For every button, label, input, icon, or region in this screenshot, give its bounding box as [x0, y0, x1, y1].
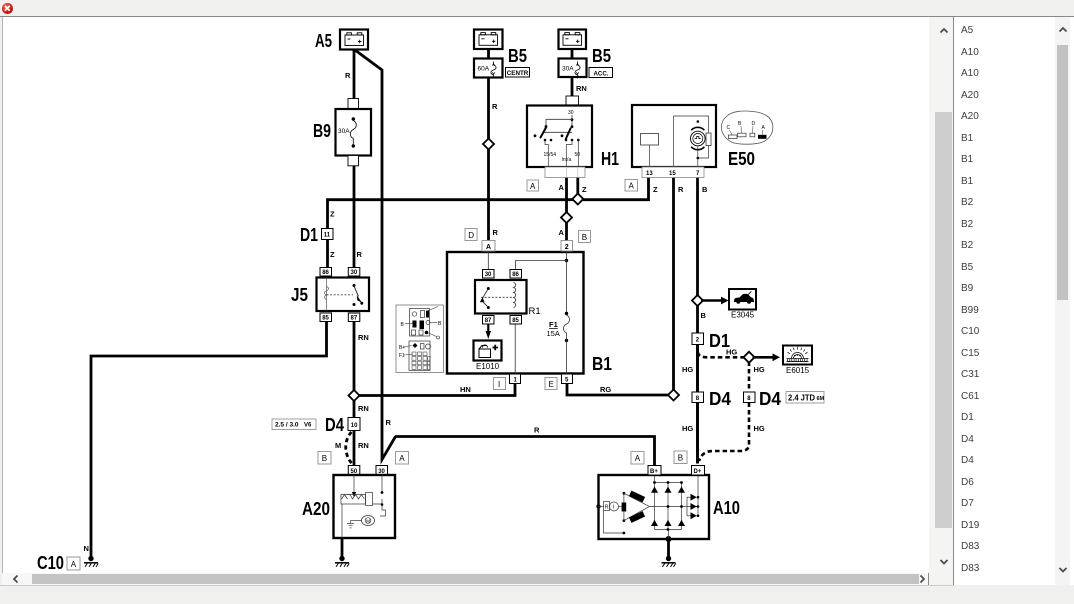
svg-text:A10: A10 — [713, 498, 740, 518]
svg-text:V6: V6 — [304, 423, 312, 429]
close button — [2, 3, 13, 14]
junction diamond on bus — [572, 193, 583, 204]
svg-text:2.5 / 3.0: 2.5 / 3.0 — [275, 422, 299, 429]
arrow to E6015 — [753, 353, 781, 361]
wire A20 bottom to ground — [341, 538, 344, 558]
variant box 2.4 JTD 6M — [786, 392, 825, 404]
svg-text:HG: HG — [754, 365, 765, 374]
svg-text:A: A — [486, 244, 491, 251]
wire D1-2 dashed to HG splice — [698, 345, 746, 358]
svg-text:60A: 60A — [478, 66, 490, 73]
svg-text:E: E — [549, 380, 554, 389]
connector face oval E50 — [721, 111, 773, 144]
connector letter box A (E50) — [625, 180, 638, 192]
connector D4 pin 10 — [348, 418, 360, 431]
svg-text:86: 86 — [512, 272, 519, 278]
svg-text:Z: Z — [330, 250, 335, 259]
wire HG down left solid D1-2 to D4-8 — [696, 345, 699, 393]
connector letter box D — [465, 229, 477, 241]
wire E50 pin 15 down to RG splice (R) — [672, 178, 675, 395]
pin box A10 D+ — [692, 466, 705, 476]
wire HG left D4-8 to A10 D+ — [696, 403, 699, 464]
svg-text:I: I — [613, 505, 614, 511]
wire B5 CENTR fuse down to B1 pin A (R) — [487, 78, 490, 244]
svg-text:A: A — [635, 454, 641, 463]
connector letter box A (A10) — [631, 452, 644, 465]
connector D4 pin 8 (left) — [692, 392, 704, 403]
svg-text:A: A — [399, 454, 405, 463]
battery B5 CENTR — [474, 30, 503, 50]
svg-text:15A: 15A — [547, 329, 560, 338]
svg-text:A: A — [530, 182, 536, 191]
svg-text:D1: D1 — [709, 331, 730, 351]
svg-text:13: 13 — [646, 171, 653, 177]
svg-text:R: R — [534, 426, 540, 435]
svg-text:B1: B1 — [592, 354, 612, 374]
svg-text:Z: Z — [653, 185, 658, 194]
svg-text:Z: Z — [582, 185, 587, 194]
svg-text:B9: B9 — [313, 121, 331, 141]
pin box A20 50 — [348, 466, 360, 476]
svg-text:50: 50 — [575, 152, 581, 158]
svg-text:F1: F1 — [549, 320, 558, 329]
wire HG dashed D4-8 right down to A10 D+ — [699, 403, 749, 462]
fuse/relay box B1 — [447, 252, 584, 374]
fuse B9 30A — [336, 99, 372, 166]
svg-text:N: N — [84, 544, 89, 553]
svg-text:A20: A20 — [302, 499, 330, 519]
wire B5 CENTR battery to fuse — [487, 49, 490, 59]
svg-text:B5: B5 — [508, 46, 527, 66]
boxed label ACC. — [589, 68, 613, 78]
main vertical scrollbar — [929, 17, 953, 585]
svg-text:A: A — [629, 182, 635, 191]
connector letter box B (A10) — [674, 451, 687, 464]
vehicle symbol E3045 — [729, 289, 756, 310]
wire A5 to B9 (R) — [353, 49, 356, 99]
starter motor A20 — [334, 475, 396, 538]
wire RG from B1 pin 5 to splice — [567, 384, 674, 396]
svg-text:J5: J5 — [291, 285, 308, 305]
svg-text:A: A — [559, 183, 565, 192]
ground below A20 — [335, 556, 349, 567]
svg-text:D4: D4 — [709, 389, 731, 409]
instrument cluster E50 — [632, 105, 716, 178]
svg-text:30A: 30A — [562, 66, 574, 73]
horizontal scrollbar — [2, 573, 928, 585]
svg-text:R: R — [386, 418, 392, 427]
svg-text:11: 11 — [324, 233, 331, 239]
svg-text:RN: RN — [358, 404, 369, 413]
fuse B5 ACC 30A — [559, 59, 587, 79]
pin box A20 30 — [376, 466, 388, 476]
wire B9 to J5 pin 30 (R) — [353, 166, 356, 268]
svg-text:D: D — [752, 121, 756, 127]
boxed label CENTR — [506, 68, 530, 78]
svg-text:RN: RN — [358, 333, 369, 342]
svg-text:I: I — [498, 380, 500, 389]
svg-text:Z: Z — [330, 210, 335, 219]
pin box R1 85 — [510, 316, 522, 325]
svg-text:E3045: E3045 — [731, 311, 755, 320]
svg-text:B: B — [701, 311, 707, 320]
svg-text:D: D — [468, 231, 474, 240]
splice node on A wire — [561, 212, 572, 223]
svg-text:CENTR: CENTR — [507, 70, 529, 77]
svg-text:30: 30 — [568, 110, 574, 116]
fuse F1 15A — [547, 312, 570, 374]
connector letter box I — [494, 378, 506, 390]
wire HG dashed splice to D4-8 right — [748, 362, 751, 393]
svg-text:B: B — [702, 185, 708, 194]
svg-text:RN: RN — [358, 441, 369, 450]
splice node on R wire — [483, 138, 494, 149]
svg-text:C: C — [727, 125, 731, 131]
connector letter box B — [579, 231, 591, 243]
ground C10 — [84, 556, 98, 567]
battery B5 ACC — [559, 30, 587, 50]
wire H1 pin A down to B1 pin 2 — [565, 178, 568, 242]
list scrollbar — [1055, 17, 1070, 585]
arrow from 87 to E1010 — [486, 325, 491, 340]
connector letter box B (A20) — [318, 452, 331, 465]
svg-text:F1: F1 — [399, 353, 405, 359]
svg-text:B5: B5 — [592, 46, 611, 66]
svg-text:B: B — [322, 454, 327, 463]
pin box J5 86 — [320, 268, 332, 277]
svg-text:A: A — [71, 560, 77, 569]
svg-text:2: 2 — [565, 244, 569, 251]
svg-text:87: 87 — [485, 318, 492, 324]
wire J5 87 down (RN) — [353, 322, 356, 418]
svg-text:M: M — [335, 441, 341, 450]
svg-text:M: M — [366, 519, 370, 524]
alternator A10 — [596, 475, 709, 542]
svg-text:30A: 30A — [338, 128, 350, 135]
svg-text:10: 10 — [351, 423, 358, 429]
connector D1 pin 11 — [322, 229, 334, 240]
splice diamond R/RG — [668, 389, 679, 400]
svg-text:R1: R1 — [529, 306, 541, 317]
pin box J5 85 — [320, 313, 332, 322]
svg-text:H1: H1 — [601, 149, 619, 169]
pin box R1 30 — [483, 270, 495, 279]
arrow to E3045 — [701, 297, 729, 305]
battery A5 — [340, 30, 368, 50]
bus wire Z from D1-11 to E50-13 — [328, 178, 649, 229]
pin box R1 87 — [483, 316, 495, 325]
svg-text:RN: RN — [576, 84, 587, 93]
pin box B1 A (top) — [482, 241, 495, 252]
svg-text:HG: HG — [754, 424, 765, 433]
svg-text:RG: RG — [600, 385, 611, 394]
svg-text:D+: D+ — [694, 469, 702, 475]
splice diamond on B wire to E3045 — [692, 295, 703, 306]
svg-text:C10: C10 — [37, 553, 64, 573]
pin box B1 5 (bottom) — [562, 374, 573, 384]
pin box B1 1 (bottom) — [510, 374, 521, 384]
list panel — [954, 17, 1074, 585]
svg-text:A: A — [559, 228, 565, 237]
wire HN from splice to B1 pin 1 — [354, 384, 515, 396]
svg-text:D4: D4 — [325, 415, 344, 435]
svg-text:2.4 JTD: 2.4 JTD — [788, 393, 815, 402]
connector D4 pin 8 (right) — [744, 392, 756, 403]
svg-text:B+: B+ — [650, 469, 658, 475]
pin box B1 2 (top) — [561, 241, 573, 252]
svg-text:86: 86 — [322, 270, 329, 276]
wire A5 diagonal branch to A20 pin 30 — [355, 50, 396, 460]
svg-text:30: 30 — [485, 272, 492, 278]
svg-text:R: R — [493, 228, 499, 237]
svg-text:30: 30 — [351, 270, 358, 276]
wire E50 pin 7 down to A10 D+ (B) — [696, 178, 699, 464]
svg-text:A5: A5 — [315, 31, 332, 51]
connector D1 pin 2 — [692, 333, 704, 345]
relay J5 — [317, 278, 370, 312]
wire B5 ACC fuse to H1 (RN) — [571, 77, 574, 96]
pin box J5 30 — [348, 268, 360, 277]
relay R1 — [475, 280, 527, 314]
svg-text:ACC.: ACC. — [594, 71, 609, 78]
wire A10 bottom to ground — [667, 539, 670, 558]
svg-text:HG: HG — [682, 424, 693, 433]
svg-text:87: 87 — [351, 316, 358, 322]
svg-text:D1: D1 — [300, 225, 318, 245]
ignition switch H1 — [527, 96, 592, 178]
svg-text:85: 85 — [512, 318, 519, 324]
svg-text:E6015: E6015 — [786, 366, 810, 375]
wire D1-11 to J5 pin 86 (Z) — [326, 240, 329, 268]
svg-text:E50: E50 — [728, 149, 755, 169]
battery symbol E1010 — [474, 341, 502, 361]
connector letter box A (H1) — [527, 180, 539, 191]
wire B5 ACC battery to fuse — [571, 49, 574, 59]
splice diamond HN junction — [348, 390, 359, 401]
svg-text:R: R — [357, 250, 363, 259]
wire H1 pin Z to bus — [576, 178, 579, 200]
wire R from A10 B+ to A20 pin 30 — [395, 437, 655, 466]
pin box A10 B+ — [648, 466, 661, 476]
svg-text:R: R — [492, 102, 498, 111]
splice diamond HG — [743, 352, 754, 363]
legend connector detail box — [396, 305, 444, 373]
svg-text:HG: HG — [682, 365, 693, 374]
wire D4-10 to A20 pin 50 (RN) — [353, 431, 356, 466]
svg-text:D4: D4 — [759, 389, 781, 409]
glow plug control symbol E6015 — [783, 346, 812, 365]
svg-text:R: R — [345, 71, 351, 80]
svg-text:R: R — [605, 505, 609, 511]
ground below A10 — [662, 556, 676, 567]
wire J5 85 to C10 ground — [91, 322, 327, 559]
dashed mechanical link M — [346, 432, 352, 464]
svg-text:B+: B+ — [399, 345, 405, 351]
variant box 2.5 / 3.0 V6 — [272, 419, 316, 430]
connector letter box A (C10) — [67, 557, 80, 570]
pin box R1 86 — [510, 270, 522, 279]
svg-text:Int/a: Int/a — [562, 157, 572, 163]
connector letter box E — [545, 378, 557, 390]
svg-text:85: 85 — [322, 316, 329, 322]
connector letter box A (A20) — [396, 452, 409, 465]
pin box J5 87 — [348, 313, 360, 322]
svg-text:6M: 6M — [817, 396, 825, 402]
svg-text:HN: HN — [460, 385, 471, 394]
svg-text:R: R — [678, 185, 684, 194]
svg-text:B: B — [582, 233, 587, 242]
svg-text:E1010: E1010 — [476, 362, 500, 371]
fuse B5 CENTR 60A — [474, 59, 503, 79]
svg-text:15: 15 — [669, 171, 676, 177]
svg-text:15/54: 15/54 — [544, 152, 557, 158]
svg-text:B: B — [678, 454, 683, 463]
